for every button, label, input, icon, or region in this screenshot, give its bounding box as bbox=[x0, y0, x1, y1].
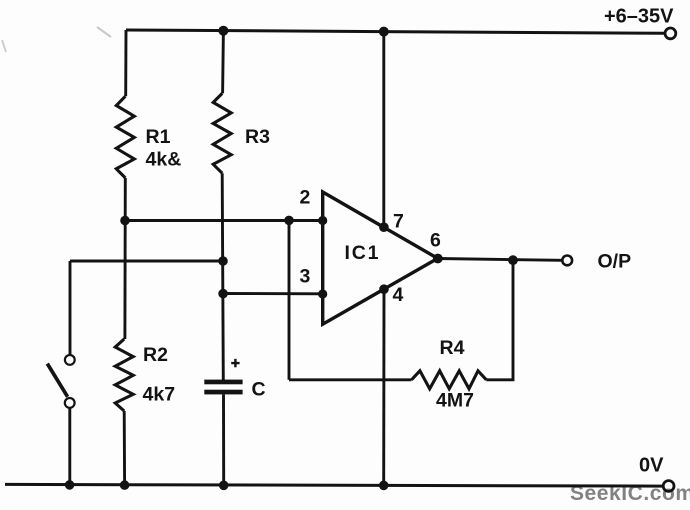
wire: R3 down to capacitor bbox=[222, 173, 223, 380]
node: switch wire junction bbox=[218, 256, 228, 266]
svg-text:4: 4 bbox=[393, 284, 404, 306]
op-amp IC1 bbox=[323, 192, 438, 324]
node: pin 4 bbox=[379, 284, 389, 294]
svg-text:IC1: IC1 bbox=[345, 242, 381, 264]
resistor R4 bbox=[412, 371, 487, 389]
svg-text:R2: R2 bbox=[143, 344, 168, 366]
svg-text:0V: 0V bbox=[639, 455, 664, 477]
wire: R4 to output junction bbox=[486, 260, 513, 380]
svg-text:+6–35V: +6–35V bbox=[604, 6, 674, 28]
svg-text:R1: R1 bbox=[146, 126, 171, 148]
label + polarity bbox=[231, 359, 239, 367]
wire: output bbox=[438, 259, 562, 261]
resistor R2 bbox=[115, 339, 133, 411]
node: pin3 wire junction bbox=[218, 289, 228, 299]
svg-text:O/P: O/P bbox=[598, 251, 632, 273]
svg-text:R3: R3 bbox=[245, 126, 270, 148]
capacitor C plate top bbox=[204, 380, 242, 385]
node: R3 to supply rail bbox=[218, 26, 228, 36]
wire: feedback vertical from pin2 node bbox=[288, 220, 291, 379]
svg-text:4k7: 4k7 bbox=[143, 384, 176, 406]
svg-text:2: 2 bbox=[300, 187, 311, 209]
svg-text:4M7: 4M7 bbox=[436, 390, 474, 412]
terminal O/P bbox=[562, 256, 572, 266]
switch lever bbox=[47, 364, 67, 397]
wire: R1 branch top lead bbox=[124, 30, 127, 96]
wire: pin 4 down to 0V rail bbox=[382, 289, 385, 485]
node: pin4 branch to 0V rail bbox=[379, 481, 389, 491]
switch top contact bbox=[65, 355, 75, 365]
node: switch to 0V rail bbox=[65, 480, 75, 490]
node: feedback junction on pin2 wire bbox=[284, 216, 294, 226]
node: R2 to 0V rail bbox=[120, 480, 130, 490]
bottom 0V rail bbox=[5, 484, 662, 486]
resistor R1 bbox=[116, 96, 134, 178]
wire: switch horizontal to C node bbox=[70, 260, 223, 263]
wire: R2 bottom lead bbox=[123, 411, 126, 485]
terminal 0V bbox=[663, 481, 674, 492]
wire: pin 3 input bbox=[223, 292, 323, 295]
capacitor C plate bottom bbox=[204, 390, 242, 395]
svg-text:6: 6 bbox=[430, 230, 441, 252]
svg-text:4k&: 4k& bbox=[146, 149, 182, 171]
wire: switch branch vertical lower bbox=[68, 408, 71, 485]
wire: capacitor bottom lead bbox=[222, 394, 225, 485]
wire: R1 to R2 bbox=[123, 178, 126, 339]
svg-text:7: 7 bbox=[393, 211, 404, 233]
switch bottom contact bbox=[65, 398, 75, 408]
svg-text:3: 3 bbox=[300, 266, 311, 288]
wire: supply to pin 7 bbox=[382, 32, 385, 228]
wire: R3 top lead bbox=[221, 31, 225, 94]
node: pin7 rail junction bbox=[379, 27, 389, 37]
wire: feedback horizontal to R4 bbox=[289, 378, 412, 381]
wire: switch branch vertical upper bbox=[69, 261, 72, 355]
node: pin 2 bbox=[318, 216, 327, 225]
svg-text:R4: R4 bbox=[440, 337, 465, 359]
node: pin 7 bbox=[379, 222, 389, 232]
node: C branch to 0V rail bbox=[219, 481, 229, 491]
wire: pin 2 input from divider bbox=[125, 219, 323, 222]
node: pin 6 output apex bbox=[433, 254, 443, 264]
svg-text:C: C bbox=[252, 379, 266, 401]
top supply rail bbox=[126, 30, 664, 33]
resistor R3 bbox=[213, 93, 231, 173]
node: pin 3 bbox=[318, 289, 327, 298]
node: output/feedback junction bbox=[508, 255, 518, 265]
terminal +6-35V bbox=[665, 28, 676, 39]
node: junction R1/R2/pin2 wire bbox=[120, 216, 130, 226]
